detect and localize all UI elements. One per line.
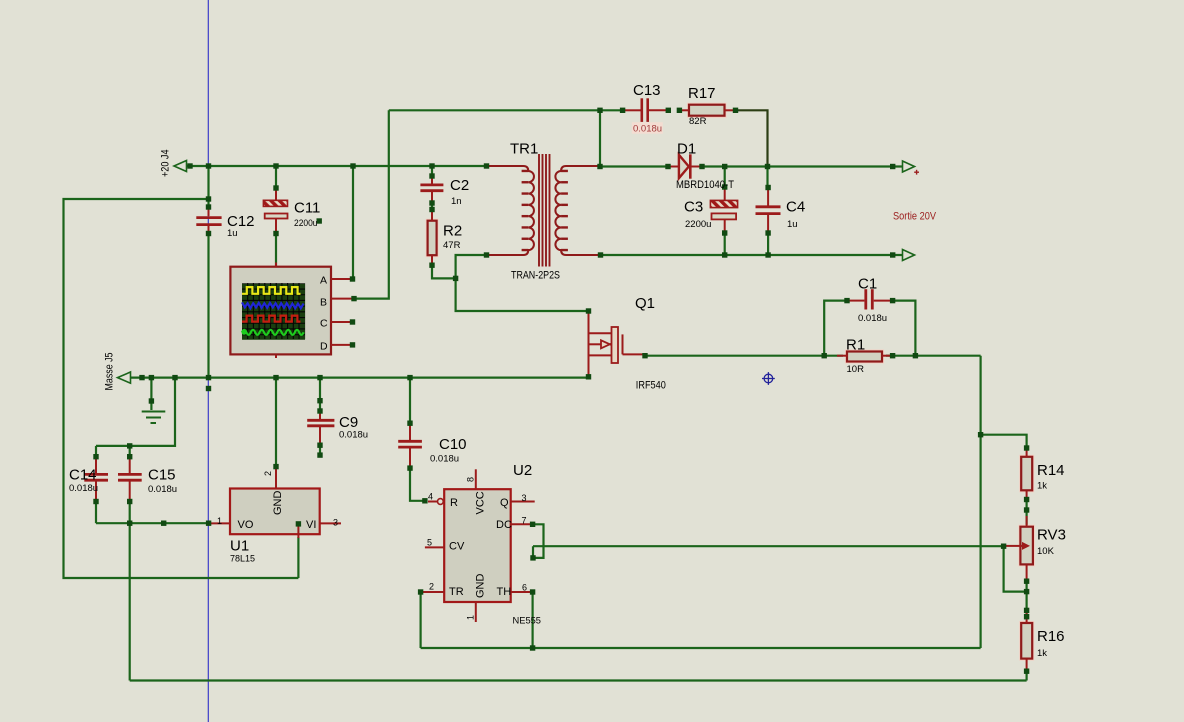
capacitor C2 xyxy=(420,176,443,203)
wire C9 bottom markers xyxy=(319,445,321,455)
svg-text:R2: R2 xyxy=(443,223,462,240)
wire C12 feed from rail xyxy=(207,166,209,207)
svg-text:D1: D1 xyxy=(677,141,696,158)
transistor Q1 IRF540 mosfet xyxy=(589,311,646,377)
label C13 value highlight box xyxy=(632,122,663,134)
terminal Sortie + output arrow xyxy=(903,161,915,172)
node squares D1 line xyxy=(597,164,602,169)
wire C3 top stub xyxy=(724,167,726,188)
svg-text:0.018u: 0.018u xyxy=(339,430,368,441)
svg-text:82R: 82R xyxy=(689,116,707,127)
capacitor C12 xyxy=(196,207,221,234)
wire mosfet gate feed square end xyxy=(587,311,589,312)
svg-text:Sortie 20V: Sortie 20V xyxy=(893,211,937,223)
wire C9 stub xyxy=(319,378,321,411)
wire +20 top rail xyxy=(186,165,487,167)
wire ground symbol stem xyxy=(150,378,152,410)
label plus terminal xyxy=(914,170,919,175)
wire primary bottom link xyxy=(456,255,589,311)
wire TR TH long to right riser xyxy=(421,647,981,649)
node squares C10 and 555 pins xyxy=(407,421,412,426)
svg-text:R1: R1 xyxy=(846,337,865,354)
wire C3 bottom stub xyxy=(724,233,726,255)
svg-text:VI: VI xyxy=(306,519,316,531)
svg-text:47R: 47R xyxy=(443,240,461,251)
potentiometer RV3 xyxy=(1006,516,1034,581)
wire VO horizontal xyxy=(96,522,209,524)
svg-text:1n: 1n xyxy=(451,196,462,207)
wire masse ground rail xyxy=(130,377,589,379)
wire right riser xyxy=(979,356,981,648)
svg-text:VO: VO xyxy=(238,519,254,531)
timer U2 NE555 xyxy=(423,469,535,622)
wire R14 to RV3 xyxy=(1025,500,1027,528)
svg-text:1u: 1u xyxy=(227,228,238,239)
node squares mosfet xyxy=(586,308,591,313)
svg-text:0.018u: 0.018u xyxy=(858,313,887,324)
svg-text:DC: DC xyxy=(496,519,512,531)
svg-text:0.018u: 0.018u xyxy=(69,483,98,494)
capacitor C14 xyxy=(84,457,108,502)
svg-text:8: 8 xyxy=(466,477,476,482)
node squares bottom secondary rail xyxy=(484,252,489,257)
svg-text:7: 7 xyxy=(522,516,527,526)
svg-text:78L15: 78L15 xyxy=(230,554,255,565)
svg-text:NE555: NE555 xyxy=(513,616,542,627)
svg-text:Q: Q xyxy=(500,497,509,509)
svg-text:3: 3 xyxy=(522,493,527,503)
node squares C3 C4 xyxy=(722,184,727,189)
capacitor C4 xyxy=(756,188,781,234)
guide blue vertical line xyxy=(207,0,209,722)
svg-text:GND: GND xyxy=(272,491,284,516)
wire DC to RV3 wiper long xyxy=(533,545,1004,547)
scope pin stubs xyxy=(276,263,353,359)
node squares scope pins xyxy=(350,276,355,281)
wire R16 bottom xyxy=(1025,671,1027,680)
node squares C1 R1 xyxy=(844,298,849,303)
svg-text:TR: TR xyxy=(449,586,464,598)
svg-text:10R: 10R xyxy=(847,364,865,375)
node squares C14 C15 xyxy=(93,454,98,459)
svg-text:MBRD1040-T: MBRD1040-T xyxy=(676,179,734,191)
wire C4 bottom stub xyxy=(767,233,769,255)
wire mosfet out to R1 xyxy=(645,355,843,357)
svg-text:TRAN-2P2S: TRAN-2P2S xyxy=(511,270,560,282)
svg-text:U1: U1 xyxy=(230,538,249,555)
wire C14 top stub xyxy=(95,446,97,457)
wire D1 cathode to + terminal xyxy=(702,165,902,167)
svg-text:C3: C3 xyxy=(684,199,703,216)
diode D1 MBRD1040-T xyxy=(668,154,702,178)
wire C10 feed xyxy=(409,378,411,424)
svg-text:TH: TH xyxy=(497,586,512,598)
node square ground stem xyxy=(149,398,154,403)
svg-text:C4: C4 xyxy=(786,199,805,216)
svg-text:C: C xyxy=(320,318,328,330)
svg-text:IRF540: IRF540 xyxy=(636,380,666,392)
wire C15 bottom stub xyxy=(129,502,131,524)
node squares snubber line xyxy=(597,108,602,113)
svg-text:R: R xyxy=(450,497,458,509)
svg-text:C11: C11 xyxy=(294,200,320,217)
node squares C11 xyxy=(273,185,278,190)
wire left input branch to VI xyxy=(64,199,299,578)
capacitor C10 xyxy=(398,423,422,468)
svg-text:10K: 10K xyxy=(1037,546,1055,557)
node squares top rail xyxy=(187,163,192,168)
svg-text:C10: C10 xyxy=(439,436,467,453)
wire C1 left branch xyxy=(824,301,847,356)
svg-text:D: D xyxy=(320,340,328,352)
resistor R1 xyxy=(837,351,891,363)
scope trace red xyxy=(242,316,301,322)
capacitor C3 electrolytic xyxy=(710,187,737,233)
svg-text:3: 3 xyxy=(333,518,338,528)
svg-text:CV: CV xyxy=(449,541,465,553)
node squares C12 column xyxy=(206,196,211,201)
svg-text:0.018u: 0.018u xyxy=(633,123,662,134)
wire scope A to +20 rail xyxy=(352,166,354,279)
svg-text:B: B xyxy=(320,297,327,309)
wire C11 top stub xyxy=(275,166,277,188)
svg-text:2: 2 xyxy=(429,582,434,592)
svg-text:C2: C2 xyxy=(450,177,469,194)
svg-text:1u: 1u xyxy=(787,219,798,230)
resistor R2 xyxy=(427,210,438,265)
svg-text:U2: U2 xyxy=(513,462,532,479)
svg-text:C1: C1 xyxy=(858,276,877,293)
capacitor C11 electrolytic xyxy=(263,188,287,234)
svg-text:Q1: Q1 xyxy=(635,295,655,312)
wire U1 pin2 to ground rail xyxy=(275,378,277,467)
wire C2 top stub xyxy=(431,166,433,176)
wire C2 to R2 link xyxy=(431,203,433,210)
svg-text:R16: R16 xyxy=(1037,628,1065,645)
capacitor C1 xyxy=(849,289,891,309)
svg-text:0.018u: 0.018u xyxy=(430,454,459,465)
resistor R17 xyxy=(678,104,734,117)
terminal J4 +20 input arrow xyxy=(174,161,187,172)
svg-text:4: 4 xyxy=(428,492,433,502)
svg-text:VCC: VCC xyxy=(475,491,487,514)
resistor R16 xyxy=(1020,610,1033,671)
svg-text:1: 1 xyxy=(466,615,476,620)
scope trace green xyxy=(242,330,304,335)
node squares C2 R2 xyxy=(429,173,434,178)
wire scope B riser xyxy=(355,110,389,298)
oscilloscope graph component xyxy=(230,263,353,359)
wire C15 top stub xyxy=(129,446,131,457)
wire VI riser xyxy=(297,537,299,578)
node squares VO wire xyxy=(127,521,132,526)
ground symbol xyxy=(142,412,166,424)
node square RV3 wiper xyxy=(1001,544,1006,549)
wire 555 TR down xyxy=(420,592,422,648)
svg-text:C14: C14 xyxy=(69,467,97,484)
capacitor C15 xyxy=(118,457,142,502)
svg-text:6: 6 xyxy=(522,583,527,593)
scope trace yellow xyxy=(242,287,301,294)
wire secondary bottom rail xyxy=(601,254,903,256)
wire C14 bottom stub xyxy=(95,502,97,524)
wire R17 to corner dark xyxy=(737,110,768,166)
svg-text:Masse J5: Masse J5 xyxy=(104,353,116,391)
wire top snubber horizontal xyxy=(389,109,623,111)
regulator U1 78L15 xyxy=(211,467,341,538)
transformer TR1 TRAN-2P2S xyxy=(489,154,600,267)
wire RV3 wiper to bottom node xyxy=(1004,546,1027,591)
node squares masse rail xyxy=(139,375,144,380)
svg-text:C13: C13 xyxy=(633,82,661,99)
svg-text:2200u: 2200u xyxy=(294,218,318,229)
svg-text:TR1: TR1 xyxy=(510,141,538,158)
node square right riser tap xyxy=(978,432,983,437)
wire RV3 bottom xyxy=(1025,581,1027,617)
svg-text:2: 2 xyxy=(263,471,273,476)
terminal Sortie - output arrow xyxy=(903,250,915,261)
wire 555 TH down xyxy=(531,592,533,648)
svg-text:C9: C9 xyxy=(339,414,358,431)
wire snubber tap to secondary top xyxy=(599,110,601,166)
node squares C9 xyxy=(317,398,322,403)
node squares U1 pins xyxy=(296,521,301,526)
wire C4 top stub xyxy=(766,167,768,188)
wire R14 feed xyxy=(981,435,1027,448)
capacitor C13 xyxy=(625,98,667,122)
svg-text:1k: 1k xyxy=(1037,481,1047,492)
svg-text:0.018u: 0.018u xyxy=(148,484,177,495)
svg-text:GND: GND xyxy=(475,574,487,599)
svg-text:5: 5 xyxy=(427,537,432,547)
wire C12 bottom to ground rail xyxy=(207,234,209,378)
svg-text:1: 1 xyxy=(217,516,222,526)
svg-text:+20 J4: +20 J4 xyxy=(160,150,172,178)
svg-text:RV3: RV3 xyxy=(1037,527,1066,544)
wire R2 bottom link xyxy=(432,265,456,278)
svg-text:R17: R17 xyxy=(688,85,716,102)
node squares R14 RV3 R16 chain xyxy=(1024,445,1029,450)
svg-text:2200u: 2200u xyxy=(685,219,711,230)
wire C10 bottom to 555 R pin xyxy=(410,468,425,501)
origin crosshair marker xyxy=(762,372,775,385)
capacitor C9 xyxy=(307,411,334,445)
wire C15 bottom to long bottom rail xyxy=(129,523,131,680)
resistor R14 xyxy=(1020,448,1033,500)
svg-text:A: A xyxy=(320,274,327,286)
terminal J5 Masse arrow xyxy=(118,372,131,383)
wire 555 DC loop xyxy=(533,524,544,558)
scope trace blue xyxy=(242,302,304,308)
wire C1 right branch xyxy=(893,301,916,356)
svg-text:1k: 1k xyxy=(1037,648,1047,659)
wire long bottom rail xyxy=(130,679,1027,681)
svg-text:R14: R14 xyxy=(1037,462,1065,479)
wire C14 C15 top feed xyxy=(96,378,175,446)
wire R1 right to corner xyxy=(886,355,981,357)
wire secondary top to D1 xyxy=(600,165,668,167)
svg-text:C15: C15 xyxy=(148,467,176,484)
wire C11 bottom to scope top xyxy=(275,234,277,267)
